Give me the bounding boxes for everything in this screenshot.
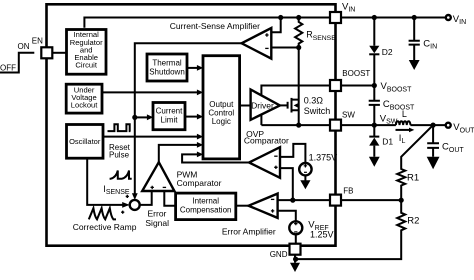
svg-text:Internal: Internal xyxy=(192,197,219,206)
svg-text:Current: Current xyxy=(156,106,183,115)
svg-text:0.3Ω: 0.3Ω xyxy=(304,95,324,105)
svg-text:Oscillator: Oscillator xyxy=(69,137,101,146)
svg-text:Signal: Signal xyxy=(145,218,169,228)
svg-text:ON: ON xyxy=(18,42,30,51)
svg-text:Driver: Driver xyxy=(251,100,274,110)
svg-text:OFF: OFF xyxy=(0,64,16,73)
svg-text:EN: EN xyxy=(32,36,43,45)
svg-text:Thermal: Thermal xyxy=(152,59,182,68)
svg-text:Compensation: Compensation xyxy=(180,206,232,215)
svg-text:Corrective Ramp: Corrective Ramp xyxy=(73,222,137,232)
svg-text:Error: Error xyxy=(148,208,167,218)
svg-text:BOOST: BOOST xyxy=(342,69,370,78)
svg-text:R1: R1 xyxy=(407,173,419,184)
svg-text:Comparator: Comparator xyxy=(244,135,289,145)
svg-text:Shutdown: Shutdown xyxy=(149,67,185,76)
svg-text:R2: R2 xyxy=(407,216,419,227)
svg-text:GND: GND xyxy=(270,250,288,259)
svg-text:D1: D1 xyxy=(382,137,393,147)
svg-text:1.25V: 1.25V xyxy=(310,230,334,240)
svg-text:Logic: Logic xyxy=(212,117,231,126)
svg-text:L: L xyxy=(402,109,407,119)
svg-text:Current-Sense Amplifier: Current-Sense Amplifier xyxy=(170,21,260,31)
svg-text:Error Amplifier: Error Amplifier xyxy=(222,227,276,237)
svg-text:D2: D2 xyxy=(382,47,393,57)
svg-text:Comparator: Comparator xyxy=(177,178,222,188)
svg-text:1.375V: 1.375V xyxy=(309,153,338,163)
svg-text:Circuit: Circuit xyxy=(75,61,97,70)
svg-text:Switch: Switch xyxy=(304,106,331,116)
svg-text:Pulse: Pulse xyxy=(109,150,130,159)
svg-text:SW: SW xyxy=(342,110,355,119)
svg-text:Limit: Limit xyxy=(161,116,179,125)
svg-text:Lockout: Lockout xyxy=(71,101,98,110)
svg-text:FB: FB xyxy=(343,186,353,195)
